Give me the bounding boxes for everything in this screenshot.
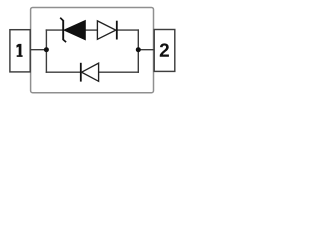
wire: bottom branch right segment [99,71,140,73]
wire: bottom branch left segment [46,71,81,73]
package outline [31,8,154,93]
wire: right loop vertical [137,29,139,73]
node A junction dot [44,47,49,52]
pin label 1 [17,44,23,57]
wire: node B to pin 2 [138,49,154,51]
wire: pin 1 to node A [30,49,46,51]
terminal box 2 [154,30,175,72]
wire: top branch right segment [117,29,140,31]
diode D3 (open, cathode left, bottom branch) [81,63,99,82]
zener diode D1 (filled, cathode left) [60,18,85,42]
wire: left loop vertical [45,29,47,73]
wire: top branch left segment [46,29,64,31]
pin label 2 [160,43,169,56]
diode D2 (open, anode left, cathode right) [97,21,116,40]
terminal box 1 [10,30,30,72]
wire: top branch middle segment [85,29,98,31]
node B junction dot [136,47,141,52]
